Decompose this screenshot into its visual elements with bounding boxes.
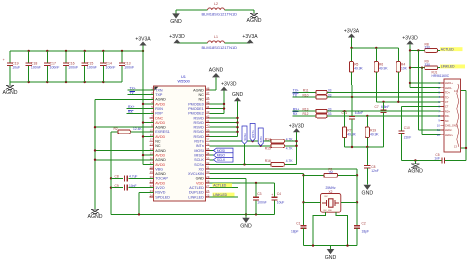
ground AGND (left rail bottom) [88,206,103,220]
svg-text:EXRES1: EXRES1 [155,130,170,134]
node RSTn vertical flag [250,124,255,142]
svg-text:100nF: 100nF [87,66,97,70]
svg-text:47: 47 [206,91,210,95]
svg-text:+: + [3,58,5,62]
svg-text:SCSn: SCSn [243,133,247,141]
svg-text:100nF: 100nF [124,66,134,70]
resistor R19 49.9K (RD- termination) [365,116,379,147]
svg-text:CT: CT [445,100,449,104]
wire GND to AGND through L2 [176,9,254,11]
svg-text:VBG: VBG [155,167,163,171]
ground GND (left of L2) [170,10,182,25]
capacitor C18 100nF [26,51,41,82]
svg-text:C8: C8 [115,175,119,179]
resistor R15 4.7K (INTn pullup) [265,144,294,151]
svg-text:R13: R13 [303,107,309,111]
svg-text:GND: GND [170,19,182,25]
svg-text:10uF: 10uF [12,66,20,70]
svg-text:NC: NC [155,144,161,148]
svg-text:41: 41 [206,119,210,123]
svg-text:AVDD: AVDD [155,163,165,167]
power flag +3V3A (cap bank) [135,36,151,51]
svg-text:TXP: TXP [155,93,163,97]
svg-text:RSVD: RSVD [194,130,205,134]
svg-text:LED1+: LED1+ [445,81,454,85]
svg-text:HR961160C: HR961160C [432,74,450,78]
svg-text:30: 30 [206,170,210,174]
capacitor C16 100nF [63,51,78,82]
svg-text:37: 37 [206,138,210,142]
svg-text:48: 48 [206,87,210,91]
svg-text:NC: NC [445,119,449,123]
wire INTn net [210,145,298,147]
svg-text:33: 33 [328,112,332,116]
resistor R7 49.9K (RD+ termination) [342,111,356,147]
resistor R16 4.7K (SCSn pullup) [265,159,294,166]
power flag +3V3A (bias rail) [344,28,360,48]
wire termination ground rail [345,146,384,148]
svg-text:SCSn: SCSn [194,163,204,167]
svg-text:4.7K: 4.7K [286,137,294,141]
svg-text:AVDD: AVDD [155,121,165,125]
svg-text:AGND: AGND [155,149,166,153]
wire +3V3A bias rail [350,47,398,49]
U1 left pin names, stubs and pin numbers [150,87,171,200]
svg-text:SCLK: SCLK [194,158,204,162]
svg-text:26: 26 [206,189,210,193]
svg-text:49.9K: 49.9K [379,66,388,70]
svg-text:AGND: AGND [209,68,224,74]
wire +3V3D to +3V3A through L1 [177,42,250,44]
svg-text:44: 44 [206,105,210,109]
svg-text:BLM18SG121TN1D: BLM18SG121TN1D [202,12,238,17]
svg-text:33: 33 [206,156,210,160]
svg-text:49.9K: 49.9K [370,133,379,137]
svg-text:VDD: VDD [196,181,204,185]
node RX- (net label, U1 RXP) [127,110,154,114]
svg-text:TOCAP: TOCAP [155,177,168,181]
svg-text:ACTLED: ACTLED [441,47,455,51]
svg-text:13: 13 [454,144,458,148]
svg-text:GND: GND [196,177,205,181]
svg-text:SCLK: SCLK [217,158,226,162]
resistor R12 33 (RD-) [293,112,441,118]
svg-text:LED2-: LED2- [445,128,453,132]
svg-text:46: 46 [206,96,210,100]
capacitor C13 100nF [119,51,134,82]
svg-text:RSVD: RSVD [194,121,205,125]
svg-text:+3V3D: +3V3D [169,34,185,40]
power flag GND (RSVD pulldowns) [232,92,244,136]
svg-text:NC: NC [155,140,161,144]
svg-text:MOSI: MOSI [194,149,203,153]
ground AGND (right of L2) [247,10,262,24]
svg-text:ACTLED: ACTLED [213,183,227,187]
svg-text:+3V3A: +3V3A [344,28,360,34]
svg-text:1V2O: 1V2O [155,186,165,190]
svg-text:AGND: AGND [3,90,18,96]
svg-text:C9: C9 [115,184,119,188]
wire crystal left pin [304,201,321,203]
svg-text:38: 38 [206,133,210,137]
capacitor C17 100nF [44,51,59,82]
svg-text:C2: C2 [362,222,366,226]
svg-text:R12: R12 [303,112,309,116]
svg-text:12: 12 [150,138,154,142]
svg-text:+: + [271,193,273,197]
resistor R9 330 (LINKLED) [409,60,441,70]
node TX+ (net label, U1 TXN) [128,87,154,91]
capacitor C7 6.8nF (CT termination) [375,102,390,147]
wire CT pin5 net [376,101,440,103]
capacitor C1 18pF [291,222,307,246]
node SCSn vertical flag [242,126,247,164]
resistor R14 4.7K (RSTn pullup) [265,137,294,143]
wire crystal right pin [341,201,357,203]
svg-text:100nF: 100nF [31,66,41,70]
svg-text:18: 18 [150,166,154,170]
power flag +3V3A (right of L1) [242,34,258,43]
svg-text:R14: R14 [265,137,271,141]
power flag +3V3D (PMODE pullups) [220,82,236,114]
svg-text:RSVD: RSVD [194,135,205,139]
svg-text:DNC: DNC [155,116,163,120]
svg-text:LINKLED: LINKLED [213,193,227,197]
svg-text:GND: GND [232,92,244,98]
svg-text:TD-: TD- [445,95,449,99]
wire +3V3D to RJ45 LED anodes [410,83,441,88]
svg-text:PMODE2: PMODE2 [188,112,204,116]
node RX- (right section) [293,112,299,116]
svg-text:R10: R10 [303,93,309,97]
wire RSVD pins to GND stem [210,117,239,137]
svg-text:19: 19 [150,170,154,174]
power flag +3V3D (RJ45 LEDs) [402,35,418,87]
wire R9 to LED cathode pin12 [422,68,441,135]
svg-text:+3V3A: +3V3A [242,34,258,40]
wire VDD decoupling rail [210,182,275,184]
node MISO flag [210,153,234,158]
ground AGND (chassis) [408,161,423,175]
crystal X1 25MHz [321,186,341,212]
capacitor C8 4.7uF (TOCAP) [111,175,154,182]
svg-text:CHS_GND: CHS_GND [445,123,458,127]
wire CT pin6 net [402,106,441,108]
svg-text:AGND: AGND [408,168,423,174]
node MOSI flag [210,148,234,153]
svg-text:INTn: INTn [259,136,263,143]
svg-text:31: 31 [206,166,210,170]
svg-text:PMODE0: PMODE0 [188,102,204,106]
svg-text:NC: NC [198,93,204,97]
svg-text:GND: GND [362,191,374,197]
svg-text:C3: C3 [257,192,261,196]
svg-text:RSVD: RSVD [155,191,166,195]
svg-text:RD+: RD+ [445,109,451,113]
capacitor C19 10uF [3,51,21,82]
svg-text:MISO: MISO [194,153,204,157]
svg-text:12.4K: 12.4K [133,127,142,131]
wire AGND bottom rail of cap bank [10,81,122,83]
svg-text:R15: R15 [265,147,271,151]
svg-text:AGND: AGND [155,172,166,176]
svg-text:13: 13 [150,142,154,146]
svg-text:L1: L1 [214,35,218,39]
svg-text:18pF: 18pF [291,230,299,234]
capacitor C2 18pF [354,222,369,246]
wire U1 GND pin to bottom bus [210,178,247,214]
svg-text:BLM18SG121TN1D: BLM18SG121TN1D [202,45,238,50]
svg-text:28: 28 [206,180,210,184]
svg-text:4.7K: 4.7K [286,147,294,151]
svg-text:LED1-: LED1- [445,86,453,90]
svg-text:29: 29 [206,175,210,179]
svg-text:X2: X2 [329,190,333,194]
svg-text:100nF: 100nF [50,66,60,70]
svg-text:PMODE1: PMODE1 [188,107,204,111]
svg-text:4.7K: 4.7K [286,159,294,163]
svg-text:GND: GND [325,255,337,261]
node LINKLED yellow label (RJ45) [440,65,465,69]
wire XO to crystal [210,169,359,226]
svg-text:100nF: 100nF [106,66,116,70]
svg-text:10nF: 10nF [129,184,137,188]
svg-text:10K: 10K [401,66,408,70]
capacitor C3 100nF (VDD) [253,183,267,214]
ground AGND flag (U1 right AGND pin) [209,68,224,90]
svg-text:12nF: 12nF [371,169,378,173]
svg-text:43: 43 [206,110,210,114]
svg-text:33: 33 [328,93,332,97]
node RX+ (right section) [293,107,300,111]
resistor R11 33 (TD+) [293,89,441,95]
svg-text:MISO: MISO [217,153,226,157]
capacitor C6 12nF (to chassis GND) [364,147,379,181]
svg-text:AVDD: AVDD [155,102,165,106]
wire AGND rail left of U1 [94,99,154,206]
capacitor C11 6.8nF (TD termination) [342,97,364,147]
svg-text:32: 32 [206,161,210,165]
wire RSVD pin to bottom ground wire [139,192,154,214]
svg-text:XVCLKIN: XVCLKIN [188,172,204,176]
svg-text:10uF: 10uF [277,200,285,204]
svg-text:R2: R2 [114,127,118,131]
svg-text:39: 39 [206,128,210,132]
ground GND (crystal) [325,246,337,261]
node TX- (right section) [293,93,299,97]
wire crystal ground stubs [313,212,348,245]
node TX- (net label, U1 TXP) [128,91,154,95]
capacitor C5 1nF label [434,153,440,160]
svg-text:AGND: AGND [193,88,204,92]
svg-text:45: 45 [206,100,210,104]
resistor R2 12.4K (EXRES1) [111,127,154,134]
svg-text:6.8nF: 6.8nF [355,111,363,115]
wire AGND rail x111 (R2/C8/C9 grounds) [110,132,112,215]
svg-text:AGND: AGND [155,98,166,102]
svg-text:49.9K: 49.9K [354,66,363,70]
svg-text:TD+: TD+ [445,91,450,95]
svg-text:LINKLED: LINKLED [441,65,455,69]
wire +3V3A top rail of cap bank [10,50,144,52]
svg-text:OSC_GND: OSC_GND [323,210,333,212]
node RX+ (net label, U1 RXN) [127,105,154,109]
connector RJ1 HR961160C (RJ45 jack) [432,70,461,152]
svg-text:RSTn: RSTn [194,140,203,144]
wire crystal ground rail [304,244,358,246]
svg-text:22nF: 22nF [404,135,411,139]
svg-text:AGND: AGND [155,158,166,162]
svg-text:+3V3A: +3V3A [135,36,151,42]
wire +3V3A AVDD rail left of U1 [142,51,154,164]
capacitor C14 100nF [100,51,115,82]
svg-text:+3V3D: +3V3D [402,35,418,41]
wire bottom GND bus [111,213,275,215]
resistor R8 330 (ACTLED) [409,42,441,52]
svg-text:36: 36 [206,142,210,146]
svg-text:TXN: TXN [155,88,163,92]
svg-text:LED2+: LED2+ [445,133,454,137]
svg-text:18pF: 18pF [362,230,370,234]
wire chassis/AGND wire with C5 [402,158,467,164]
wire XVCLKIN to crystal [210,174,305,226]
svg-text:21: 21 [150,180,154,184]
svg-text:100nF: 100nF [257,200,266,204]
ground AGND (cap bank) [3,82,18,96]
capacitor C4 10uF (VDD) [271,183,284,214]
svg-text:RXN: RXN [155,107,163,111]
svg-text:42: 42 [206,114,210,118]
resistor R5 49.9K [349,48,363,97]
svg-text:1nF: 1nF [434,157,440,161]
svg-text:R16: R16 [265,159,271,163]
resistor R4 10K [396,48,407,102]
svg-text:24: 24 [150,193,154,197]
wire PMODE0-2 to +3V3D [210,103,226,114]
wire SCSn net [210,163,297,165]
capacitor C10 22nF [398,107,411,161]
svg-text:C4: C4 [277,192,281,196]
node ACTLED yellow label (U1) [210,183,239,187]
svg-text:AVDD: AVDD [155,135,165,139]
svg-text:RSTn: RSTn [251,130,255,138]
svg-text:C7: C7 [375,105,379,109]
svg-text:AGND: AGND [247,18,262,24]
svg-text:25: 25 [206,193,210,197]
svg-text:ACTLED: ACTLED [189,186,204,190]
svg-text:33: 33 [328,89,332,93]
svg-text:40: 40 [206,124,210,128]
svg-text:6.8nF: 6.8nF [381,105,389,109]
svg-text:330: 330 [425,63,431,67]
svg-text:4.7uF: 4.7uF [129,175,137,179]
svg-text:C1: C1 [296,222,300,226]
svg-text:C10: C10 [404,126,410,130]
ferrite bead L1 BLM18SG121TN1D [202,35,238,50]
svg-text:RXP: RXP [155,112,163,116]
svg-text:XO: XO [198,167,203,171]
svg-text:RSVD: RSVD [194,116,205,120]
ferrite bead L2 BLM18SG121TN1D [202,2,238,17]
resistor R6 49.9K [374,48,388,102]
svg-text:AGND: AGND [88,214,103,220]
wire RSTn net [210,140,298,142]
wire RJ45 shield pins to C5 [461,91,468,161]
svg-text:100nF: 100nF [68,66,78,70]
svg-text:33: 33 [328,107,332,111]
svg-text:RD-: RD- [445,114,450,118]
svg-text:34: 34 [206,152,210,156]
svg-text:L2: L2 [214,2,218,6]
svg-text:49.9K: 49.9K [347,133,356,137]
capacitor C9 10nF (1V2O) [111,184,154,191]
svg-text:35: 35 [206,147,210,151]
svg-text:INTn: INTn [196,144,204,148]
svg-text:27: 27 [206,184,210,188]
svg-text:R11: R11 [303,89,309,93]
op-amp U1 body (W5500 IC) [154,74,206,201]
node SCLK flag [210,157,234,162]
svg-text:MOSI: MOSI [217,149,225,153]
wire R8 to LED2 cathode pin11 [418,50,440,130]
svg-text:NC: NC [198,98,204,102]
svg-text:AVDD: AVDD [155,181,165,185]
node ACTLED yellow label (RJ45) [440,47,463,51]
ground GND (C6) [362,181,374,196]
node INTn vertical flag [258,128,263,146]
svg-text:AGND: AGND [155,126,166,130]
resistor R10 33 (TD-) [293,93,441,99]
svg-text:CT: CT [445,105,449,109]
svg-text:DUPLED: DUPLED [189,191,204,195]
svg-text:LINKLED: LINKLED [188,195,204,199]
resistor R1 1M (crystal feedback) [304,167,358,177]
svg-text:1M: 1M [328,171,333,175]
resistor R13 33 (RD+) [293,107,441,113]
power flag +3V3D (left of L1) [169,34,185,43]
capacitor C15 100nF [82,51,97,82]
node LINKLED yellow label (U1) [210,193,239,197]
svg-text:SPDLED: SPDLED [155,195,170,199]
svg-text:RSVD: RSVD [194,126,205,130]
svg-text:GND: GND [240,224,252,230]
svg-text:330: 330 [425,46,431,50]
node TX+ (right section) [293,89,299,93]
svg-text:+3V3D: +3V3D [221,82,237,88]
ground GND (bottom bus) [240,214,252,229]
U1 right pin names, stubs and pin numbers [188,87,210,200]
power flag +3V3D (R14/R15/R16) [289,123,305,164]
svg-text:W5500: W5500 [178,79,191,84]
svg-text:AVDD: AVDD [155,153,165,157]
